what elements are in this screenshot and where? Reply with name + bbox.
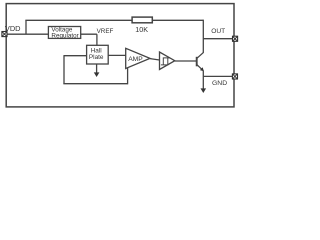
wire hall right output to amp	[108, 54, 126, 56]
wire VREF drop to hall plate	[96, 34, 98, 45]
wire top rail left of resistor	[25, 19, 132, 21]
terminal pad VDD	[2, 32, 7, 37]
voltage regulator U1 box	[48, 27, 80, 39]
wire schmitt to transistor base	[175, 60, 197, 62]
resistor 10K	[132, 17, 152, 23]
hysteresis symbol	[161, 58, 170, 65]
transistor Q1 emitter with arrow	[197, 65, 204, 72]
wire bottom run to amp	[63, 83, 127, 85]
wire OUT	[203, 38, 232, 40]
wire branch up from VDD rail	[25, 20, 27, 34]
schmitt trigger triangle	[160, 52, 175, 70]
wire top rail right of resistor	[152, 19, 203, 21]
svg-text:AMP: AMP	[128, 56, 143, 63]
terminal pad OUT	[233, 36, 238, 41]
arrow down below hall plate	[94, 72, 100, 77]
svg-text:VREF: VREF	[97, 28, 114, 35]
hall plate box	[87, 45, 109, 64]
svg-text:GND: GND	[212, 80, 227, 87]
wire left drop	[63, 55, 65, 84]
arrow down below emitter	[201, 88, 207, 93]
IC package boundary box	[6, 4, 234, 107]
svg-text:Plate: Plate	[89, 54, 104, 61]
wire GND	[203, 75, 232, 77]
wire emitter rail down	[202, 71, 204, 89]
transistor Q1 collector	[197, 52, 204, 58]
wire amp to schmitt	[150, 59, 160, 60]
wire hall left output	[64, 55, 87, 57]
wire riser into amp lower input	[127, 68, 129, 85]
svg-text:VDD: VDD	[5, 24, 21, 33]
svg-text:10K: 10K	[135, 25, 148, 34]
wire right vertical rail to collector	[202, 20, 204, 53]
op-amp AMP triangle	[126, 48, 150, 68]
wire hall plate to ground arrow	[96, 64, 98, 73]
label Voltage Regulator	[51, 26, 78, 39]
transistor Q1 base bar	[196, 57, 198, 67]
svg-text:Regulator: Regulator	[51, 33, 78, 40]
wire VREF from regulator	[81, 33, 97, 35]
terminal pad GND	[232, 74, 237, 79]
label Hall Plate	[89, 48, 104, 61]
svg-text:OUT: OUT	[211, 28, 225, 35]
wire VDD pin to regulator	[7, 33, 49, 35]
